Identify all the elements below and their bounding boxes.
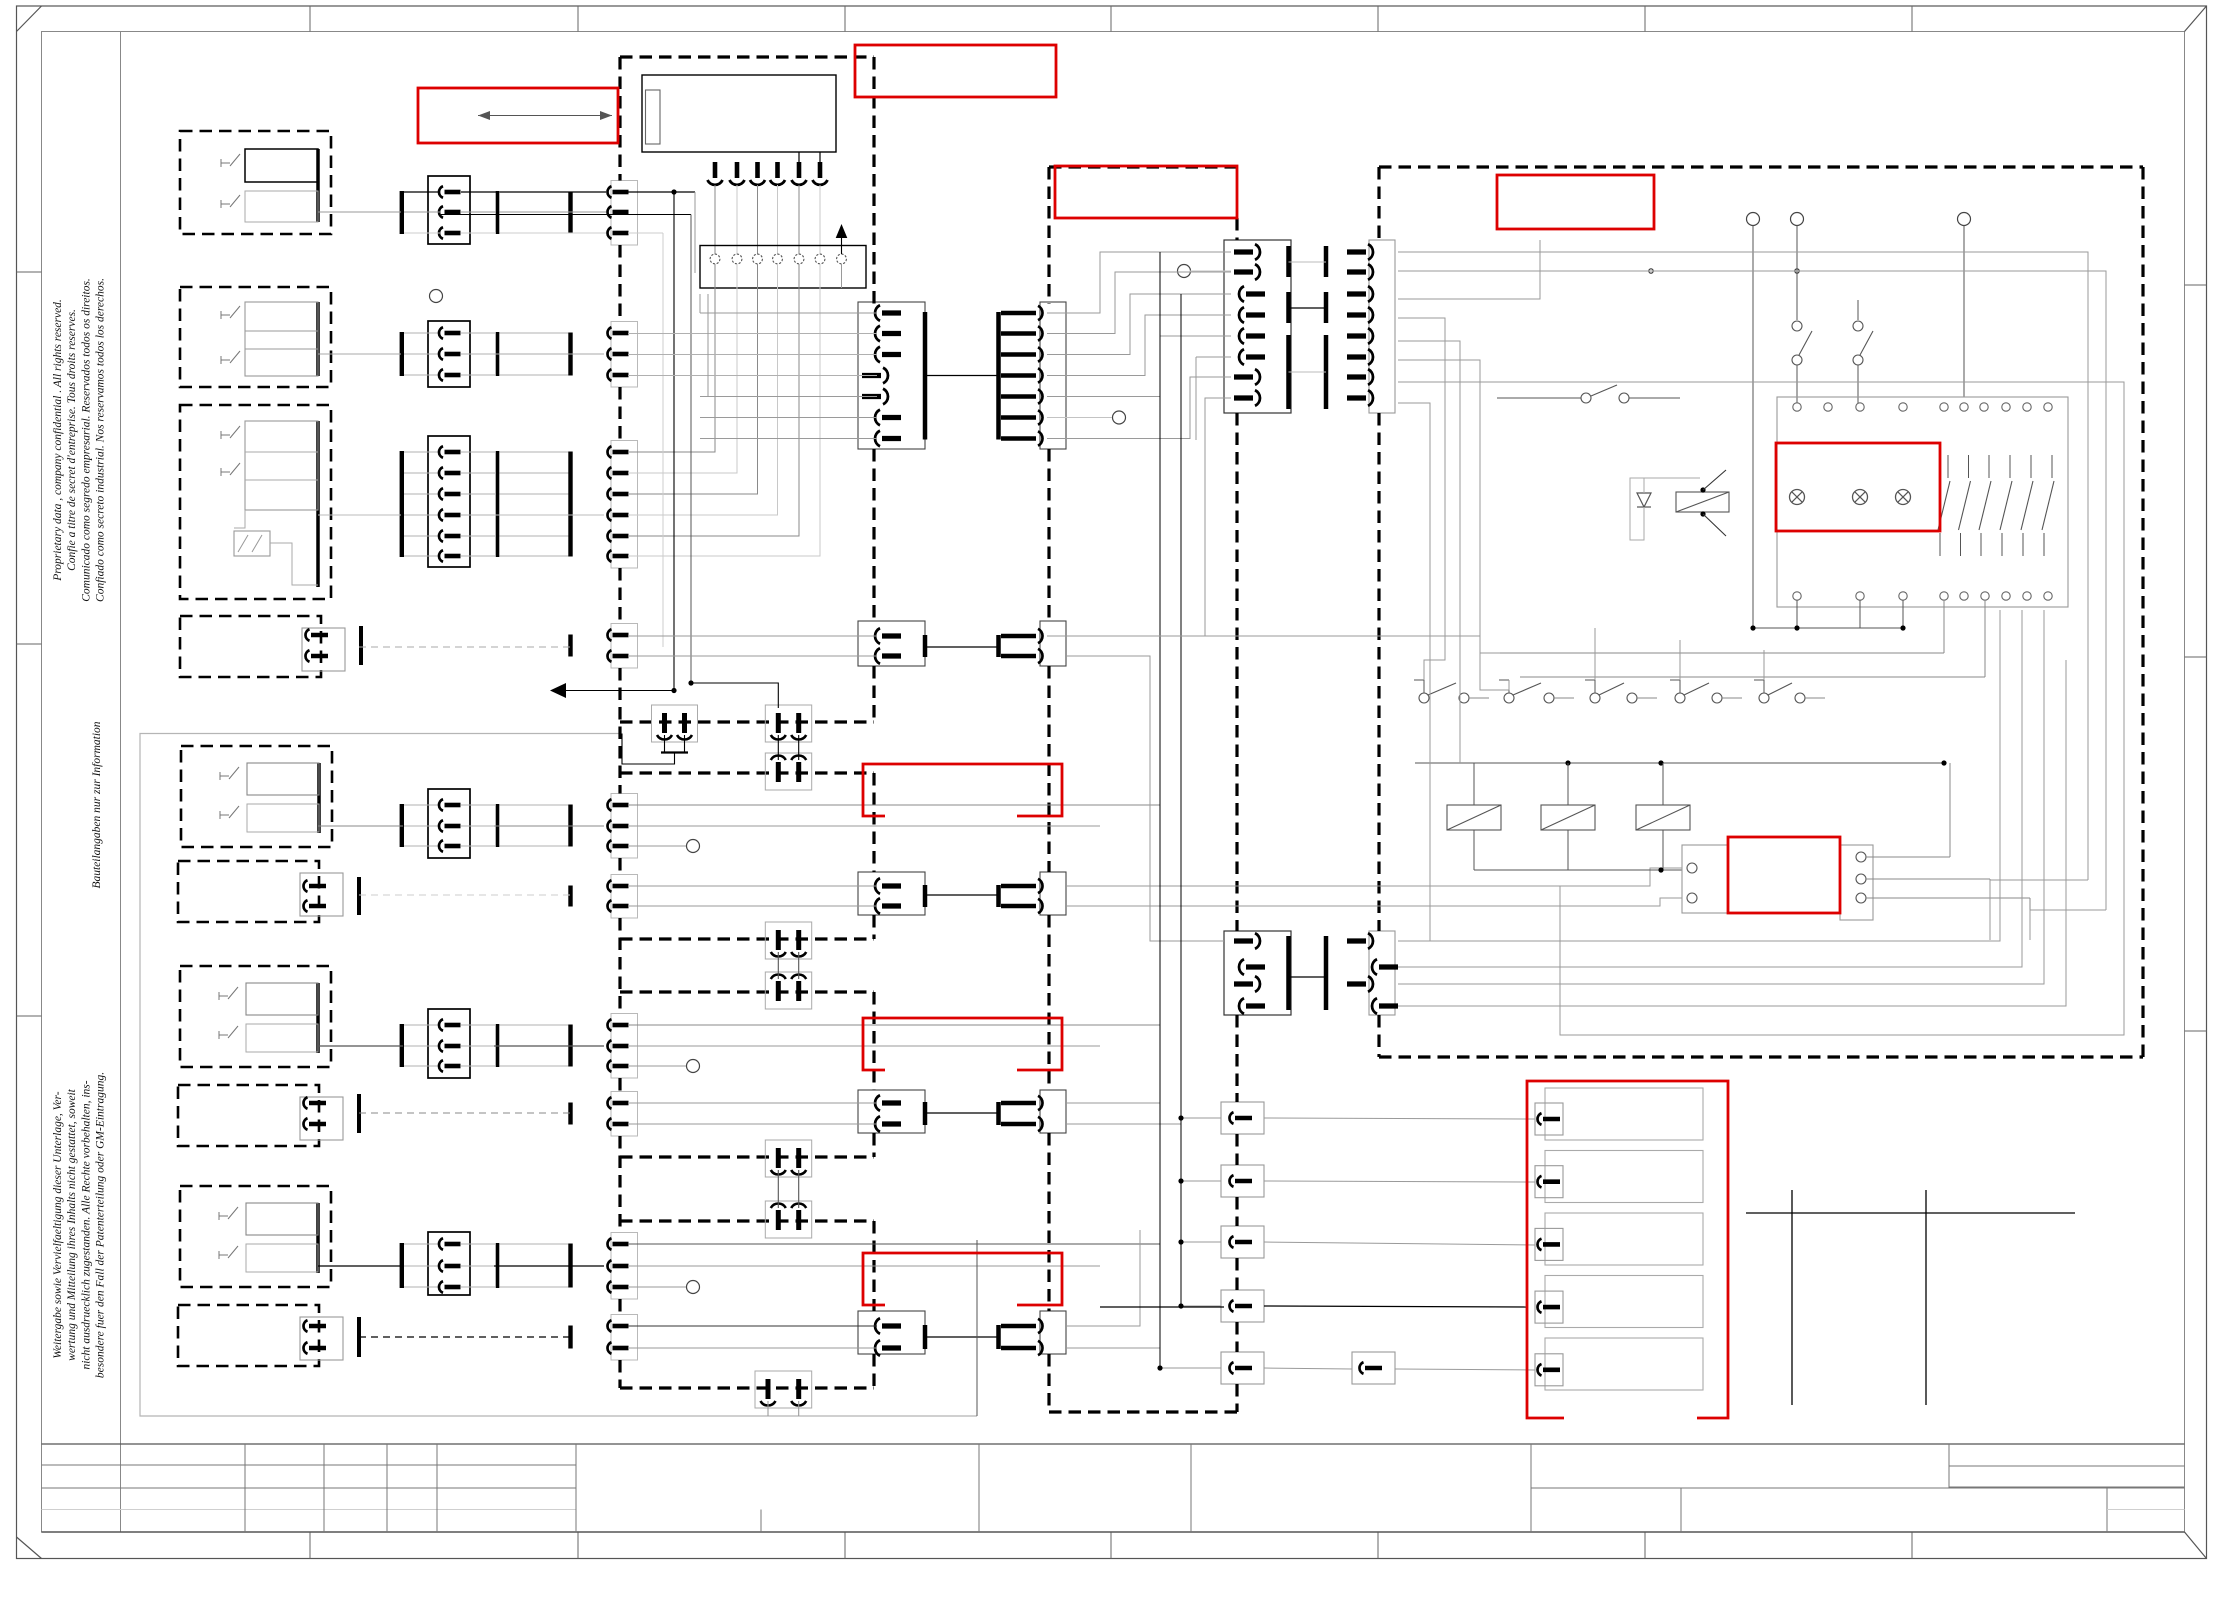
wire SP1 east bbox=[1264, 1118, 1535, 1119]
bulkhead connector B1 (8-way) bbox=[1224, 240, 1291, 413]
harness box M3 bottom edge (dashed) bbox=[620, 1155, 874, 1158]
lamp L2 bbox=[1853, 490, 1868, 505]
wiring harness W2 left edge segment y1133-1311 (dashed) bbox=[1047, 1133, 1050, 1311]
module housing right of LED unit bbox=[1840, 845, 1873, 920]
wire bundle C2 to B1 bbox=[1047, 252, 1231, 636]
wiring harness W2 right edge segment y413-931 (dashed) bbox=[1235, 413, 1238, 931]
bus wire x1160 bbox=[1157, 252, 1221, 1371]
wire X1 row1 black bbox=[404, 191, 606, 193]
pass-through connector F3 (M2 top) bbox=[765, 753, 811, 790]
label bracket (redacted) R9 bbox=[863, 1253, 1062, 1305]
wire S1 to X1 bbox=[318, 211, 401, 213]
terminal circles row bbox=[1747, 213, 1971, 226]
dashed wire S8 to P8 bbox=[359, 1112, 570, 1114]
wiring harness W1 right edge segment y773-872 (dashed) bbox=[872, 773, 875, 872]
component box S10 (2-pin sensor) bbox=[178, 1305, 359, 1366]
switch row SW4-SW8 bbox=[1414, 680, 1805, 703]
harness box M2 top edge (dashed) bbox=[620, 771, 874, 774]
relay K1 with suppression diode bbox=[1630, 470, 1729, 540]
body harness W3 left edge segment y1015-1057 (dashed) bbox=[1377, 1015, 1380, 1057]
wire C4a east long bbox=[1067, 636, 1500, 653]
relay coils K2 K3 K4 bbox=[1447, 763, 1690, 870]
fork link wires F6-F7 bbox=[778, 1170, 798, 1208]
harness box M4 bottom edge (dashed) bbox=[620, 1386, 874, 1389]
wire C6 east to relay module bbox=[1067, 868, 1682, 906]
wire P4 to C3 row bbox=[628, 636, 877, 656]
wiring harness W1 right edge segment y57-304 (dashed) bbox=[872, 57, 875, 304]
component box S6 (2-pin sensor) bbox=[178, 861, 359, 922]
frame corner diagonal top-left bbox=[17, 6, 42, 32]
harness pass-through connectors C3/C4 (2-way) bbox=[858, 621, 1066, 666]
inline connector X5 (3-way) bbox=[402, 789, 570, 858]
wire node bus A bbox=[441, 214, 691, 216]
wiring harness W2 right edge segment y1384-1412 (dashed) bbox=[1235, 1384, 1238, 1412]
wire P1.1 east bbox=[628, 189, 695, 194]
stub terminal near X2 bbox=[430, 290, 443, 303]
frame corner diagonal top-right bbox=[2185, 6, 2207, 32]
lamp unit assembly (5 elements) bbox=[1535, 1088, 1703, 1390]
svg-text:nicht ausdruecklich zugestand: nicht ausdruecklich zugestanden. Alle Re… bbox=[80, 1080, 92, 1369]
wiring harness W1 right edge segment y915-939 (dashed) bbox=[872, 915, 875, 939]
wiring harness W1 right edge segment y666-722 (dashed) bbox=[872, 666, 875, 722]
label box (redacted) R5 bbox=[1776, 443, 1940, 531]
label bracket (redacted) R10 bbox=[1527, 1081, 1728, 1418]
wire bundle into C1 (7 ways) bbox=[628, 294, 877, 439]
bus wire x1181 bbox=[1180, 294, 1182, 1306]
svg-text:Confie a titre de secret: Confie a titre de secret d'entreprise. T… bbox=[66, 309, 78, 571]
wiring harness W2 left edge segment y915-1090 (dashed) bbox=[1047, 915, 1050, 1090]
component box S4 (2-pin sensor) bbox=[180, 616, 361, 677]
pass-through connector F5 (M3 top) bbox=[765, 972, 811, 1009]
wire P7 pins east bbox=[628, 1025, 1160, 1046]
harness connector P5 (3-way) bbox=[571, 794, 700, 859]
wiring harness W1 right edge segment y1354-1388 (dashed) bbox=[872, 1354, 875, 1388]
inline connector X2 (3-way) bbox=[402, 321, 570, 387]
label box (redacted) R3 bbox=[1055, 166, 1237, 218]
wiring harness W2 left edge segment y167-304 (dashed) bbox=[1047, 167, 1050, 304]
frame left edge zone ticks bbox=[17, 272, 42, 1016]
switch SW2 bbox=[1853, 300, 1873, 403]
wiring harness W2 right edge segment y1015-1102 (dashed) bbox=[1235, 1015, 1238, 1102]
body harness W3 left edge segment y413-931 (dashed) bbox=[1377, 413, 1380, 931]
label box (redacted) R6 bbox=[1728, 837, 1840, 913]
dimension crosshair lines bbox=[1746, 1190, 2075, 1405]
wiring harness W1 right edge segment y1133-1157 (dashed) bbox=[872, 1133, 875, 1157]
component box S5 (switch unit) bbox=[181, 746, 332, 847]
wire X1 row2 gray bbox=[404, 211, 606, 213]
wire C4 east bbox=[1067, 656, 1224, 941]
label box (redacted) R1 with span arrow bbox=[418, 88, 618, 143]
wires terminal strip to connector P3 bbox=[628, 264, 842, 556]
wire X2 to P2 bbox=[494, 353, 604, 355]
fuse elements F1-F6 bbox=[1938, 455, 2054, 556]
fork tail wires below F8 bbox=[768, 1401, 799, 1416]
LED unit output wires bbox=[1866, 763, 2030, 940]
tiny junction rings bbox=[1649, 269, 1799, 273]
wiring harness W2 left edge segment y1354-1412 (dashed) bbox=[1047, 1354, 1050, 1412]
svg-text:Proprietary data , company: Proprietary data , company confidential … bbox=[52, 299, 64, 582]
dashed wire S4 to P4 bbox=[359, 646, 570, 648]
component box S9 (switch unit) bbox=[180, 1186, 331, 1287]
bus taps to splice connectors bbox=[1178, 1115, 1221, 1308]
label bracket (redacted) R7 bbox=[863, 764, 1062, 816]
component box S7 (switch unit) bbox=[180, 966, 331, 1067]
wire C10 east bbox=[1067, 1230, 1160, 1348]
pass-through connector F1 (M1 bottom left) bbox=[652, 705, 698, 742]
harness connector P7 (3-way) bbox=[571, 1014, 700, 1079]
harness connector P2 (3-way) bbox=[571, 322, 638, 388]
harness box M3 top edge (dashed) bbox=[620, 990, 874, 993]
wire F1 merge to left boundary bbox=[622, 734, 688, 765]
pass-through connector F2 (M1 bottom right) bbox=[765, 705, 811, 742]
wiring harness W1 right edge segment y449-621 (dashed) bbox=[872, 449, 875, 621]
frame corner diagonal bottom-left bbox=[17, 1537, 42, 1559]
wiring harness W2 right edge segment y1134-1165 (dashed) bbox=[1235, 1134, 1238, 1165]
wire S5 to X5 bbox=[318, 825, 403, 827]
wiring harness W2 right edge segment y1197-1226 (dashed) bbox=[1235, 1197, 1238, 1226]
splice connector SP5 bbox=[1221, 1352, 1264, 1384]
inline connector X7 (3-way) bbox=[402, 1009, 570, 1078]
wire X9 to P9 bbox=[494, 1265, 604, 1267]
title block table bbox=[42, 1444, 2185, 1532]
harness pass-through connectors C1/C2 (7-way) bbox=[858, 302, 1066, 449]
component box S8 (2-pin sensor) bbox=[178, 1085, 359, 1146]
module housing left of LED unit bbox=[1682, 845, 1728, 913]
wire SP4 east bbox=[1100, 1306, 1527, 1307]
svg-text:Comunicado como segredo empre: Comunicado como segredo empresarial. Res… bbox=[80, 278, 92, 602]
component box S1 (top-left switch unit) bbox=[180, 131, 331, 234]
inline connector X3 (6-way) bbox=[402, 436, 570, 567]
wire X3 to P3 bbox=[494, 514, 604, 516]
wiring harness W2 right edge segment y1322-1352 (dashed) bbox=[1235, 1322, 1238, 1352]
svg-text:Confiado como secreto industri: Confiado como secreto industrial. Nos re… bbox=[95, 278, 107, 602]
wire bus y763 bbox=[1415, 760, 1947, 765]
relay output junction bbox=[1474, 867, 1682, 872]
stub terminal at B1 input bbox=[1178, 265, 1232, 278]
stub terminal row 418 bbox=[1047, 411, 1126, 424]
frame corner diagonal bottom-right bbox=[2185, 1532, 2207, 1559]
svg-text:Weitergabe sowie Vervielfael: Weitergabe sowie Vervielfaeltigung diese… bbox=[52, 1091, 64, 1358]
harness pass-through connectors C5/C6 (2-way) bbox=[858, 872, 1066, 915]
wire drop to boundary bbox=[976, 1240, 978, 1416]
pass-through connector F8 (M4 bottom) bbox=[755, 1371, 812, 1408]
harness W2 bottom edge (dashed) bbox=[1049, 1410, 1237, 1413]
body harness W3 bottom edge (dashed) bbox=[1379, 1055, 2143, 1058]
harness connector P1 (3-way) bbox=[571, 181, 638, 246]
pass-through connector F4 (M2 bottom) bbox=[765, 922, 811, 959]
pass-through connector F7 (M4 top) bbox=[765, 1201, 811, 1238]
fuse box upper terminals bbox=[1793, 403, 2052, 411]
harness connector P8 (2-way) bbox=[571, 1092, 638, 1137]
bulkhead connector B3 (4-way) bbox=[1224, 931, 1291, 1015]
switch row output stubs bbox=[1469, 697, 1825, 699]
body wiring bundle bbox=[1398, 240, 2124, 1035]
wire SP5 east bbox=[1264, 1368, 1535, 1370]
wiring harness W1 right edge segment y1221-1311 (dashed) bbox=[872, 1221, 875, 1311]
body harness W3 top edge (dashed) bbox=[1379, 165, 2143, 168]
wiring harness W2 right edge segment y1258-1290 (dashed) bbox=[1235, 1258, 1238, 1290]
frame top edge zone ticks bbox=[310, 6, 1912, 32]
harness box M2 bottom edge (dashed) bbox=[620, 937, 874, 940]
reference arrow up bbox=[836, 224, 848, 254]
wire from terminal 1 down bbox=[1752, 226, 1754, 629]
wire SP2 east bbox=[1264, 1181, 1535, 1182]
wire from terminal 2 down bbox=[1796, 226, 1798, 321]
harness connector P6 (2-way) bbox=[571, 875, 638, 919]
wiring harness W2 right edge segment y218-240 (dashed) bbox=[1235, 218, 1238, 240]
wire P9 pins east bbox=[628, 1244, 1160, 1266]
harness pass-through connectors C7/C8 (2-way) bbox=[858, 1090, 1066, 1133]
splice connector SP2 bbox=[1221, 1165, 1264, 1197]
harness pass-through connectors C9/C10 (2-way) bbox=[858, 1311, 1066, 1356]
body harness W3 left edge segment y167-240 (dashed) bbox=[1377, 167, 1380, 240]
vertical bus wire x691 bbox=[690, 215, 692, 684]
wire P5 pins east bbox=[628, 805, 1160, 826]
component box S3 (switch unit with relay) bbox=[180, 405, 331, 599]
switch SW3 (horizontal) bbox=[1497, 385, 1680, 403]
wire X5 to P5 bbox=[494, 825, 604, 827]
wiring harness W2 left edge segment y449-621 (dashed) bbox=[1047, 449, 1050, 621]
harness box M1 top edge (dashed) bbox=[620, 55, 874, 58]
pass-through connector F6 (M3 bottom) bbox=[765, 1140, 811, 1177]
wire S2 to X2 bbox=[318, 353, 401, 355]
harness connector P3 (6-way) bbox=[571, 441, 638, 569]
inline connector SP6 bbox=[1352, 1352, 1395, 1384]
fork link wires F4-F5 bbox=[778, 952, 798, 979]
wire SP3 east bbox=[1264, 1242, 1535, 1245]
dashed wire S10 to P10 bbox=[359, 1336, 570, 1338]
wire P6 to C5 row bbox=[628, 886, 877, 906]
wire P8 to C7 row bbox=[628, 1103, 877, 1124]
wire S7 to X7 bbox=[318, 1045, 403, 1047]
reference arrow left bbox=[550, 683, 677, 698]
splice connector SP1 bbox=[1221, 1102, 1264, 1134]
vertical bus wire x695 bbox=[694, 192, 696, 273]
inline connector X9 (3-way) bbox=[402, 1232, 570, 1295]
fuse box lower terminals bbox=[1793, 592, 2052, 600]
terminal strip TB1 with 7 terminals bbox=[700, 246, 866, 289]
wire C8 east bbox=[1067, 1103, 1181, 1124]
wiring harness W2 left edge segment y666-872 (dashed) bbox=[1047, 666, 1050, 872]
switch SW1 bbox=[1792, 321, 1812, 403]
wiring harness W1 left edge (dashed) bbox=[618, 57, 621, 1388]
inline connector X1 (3-way) bbox=[402, 176, 570, 244]
wire run y653 bbox=[1500, 600, 1944, 653]
label box (redacted) R4 bbox=[1497, 175, 1654, 229]
vertical bus wire x674 bbox=[673, 192, 675, 690]
label box (redacted) R2 bbox=[855, 45, 1056, 97]
lamp L3 bbox=[1896, 490, 1911, 505]
schematic area boundary wire bbox=[140, 734, 977, 1417]
label bracket (redacted) R8 bbox=[863, 1018, 1062, 1070]
svg-text:besondere fuer den Fall der Pa: besondere fuer den Fall der Patenterteil… bbox=[95, 1072, 107, 1378]
frame right edge zone ticks bbox=[2185, 285, 2207, 1031]
wire run y677 bbox=[1520, 600, 1985, 677]
svg-text:wertung und Mitteilung ihres: wertung und Mitteilung ihres Inhalts nic… bbox=[66, 1088, 78, 1361]
wire X7 to P7 bbox=[494, 1045, 604, 1047]
wire P10 to C9 row bbox=[628, 1326, 877, 1348]
harness connector P9 (3-way) bbox=[571, 1233, 700, 1300]
info text Bauteilangaben (rotated) bbox=[91, 721, 103, 888]
wire S9 to X9 bbox=[318, 1265, 403, 1267]
left margin column line bbox=[120, 32, 122, 1533]
wire bus to F2 bbox=[688, 680, 778, 708]
harness W2 top edge (dashed) bbox=[1049, 165, 1237, 168]
wire X1 row3 light bbox=[404, 232, 606, 234]
lamp L1 bbox=[1790, 490, 1805, 505]
wire from terminal 3 down bbox=[1963, 226, 1965, 398]
harness box M4 top edge (dashed) bbox=[620, 1219, 874, 1222]
harness connector P4 (2-way) bbox=[571, 624, 638, 669]
dashed wire S6 to P6 bbox=[359, 894, 570, 896]
fuse/relay center outline bbox=[1777, 397, 2068, 607]
bulkhead connector B2 (8-way) bbox=[1289, 240, 1396, 413]
legal notice text block lower-left (rotated) bbox=[52, 1072, 107, 1378]
fork link wires F2-F3 bbox=[778, 735, 798, 760]
component box S2 (switch unit) bbox=[180, 287, 331, 387]
fuse box lower wiring bbox=[1750, 600, 1905, 631]
wire switch feeds down bbox=[1595, 628, 1764, 680]
control module A1 outline bbox=[642, 75, 836, 152]
module A1 pin hooks bbox=[708, 152, 828, 255]
bulkhead connector B4 (4-way) bbox=[1289, 931, 1399, 1015]
wire S3 to X3 bbox=[318, 514, 401, 516]
splice connector SP4 bbox=[1221, 1290, 1264, 1322]
vertical bus wire x663 bbox=[662, 233, 664, 647]
legal notice text block upper-left (rotated) bbox=[52, 278, 107, 602]
harness connector P10 (2-way) bbox=[571, 1315, 638, 1361]
body harness W3 right edge (dashed) bbox=[2141, 167, 2144, 1057]
svg-text:Bauteilangaben nur zur Informa: Bauteilangaben nur zur Information bbox=[91, 721, 103, 888]
wiring harness W1 right edge segment y992-1090 (dashed) bbox=[872, 992, 875, 1090]
harness box M1 bottom edge (dashed) bbox=[620, 720, 874, 723]
splice connector SP3 bbox=[1221, 1226, 1264, 1258]
frame bottom edge zone ticks bbox=[310, 1532, 1912, 1559]
wire P1.3 east bbox=[628, 232, 663, 234]
